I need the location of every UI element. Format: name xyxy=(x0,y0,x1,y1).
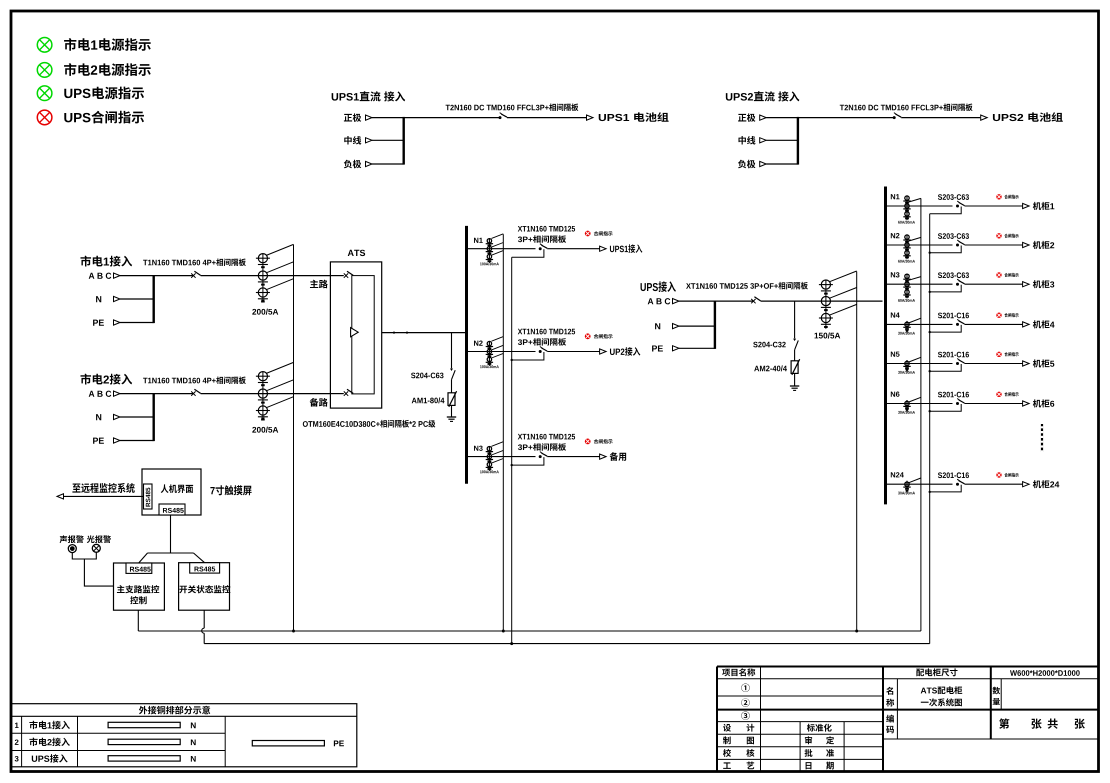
status tap wire N1 xyxy=(930,207,962,214)
breaker T1N160 TMD160 4P (市电2) xyxy=(191,391,195,395)
terminal ABC of 市电1 xyxy=(89,273,95,279)
wire N to bus (市电2) xyxy=(120,416,154,418)
surge arrester AM1-80/4 xyxy=(448,393,455,406)
cabinet distribution bus xyxy=(884,187,887,505)
wire UPS1 负极 to bus xyxy=(372,163,404,165)
output label 机柜5 xyxy=(1033,359,1041,367)
ground symbol xyxy=(447,416,456,418)
wire ABC to bus (市电2) xyxy=(120,393,154,395)
output arrow N1 xyxy=(600,246,607,251)
wire breaker to output N4 xyxy=(965,323,1023,325)
terminal 正极 of UPS1 xyxy=(344,114,352,122)
legend indicator lamp 2 xyxy=(37,63,52,78)
wire PE to bus (市电2) xyxy=(120,440,154,442)
closing indicator lamp N4 xyxy=(996,313,1001,318)
busbar table frame xyxy=(12,704,357,767)
closing indicator lamp N2 xyxy=(996,233,1001,238)
closing indicator lamp N6 xyxy=(996,392,1001,397)
branch N3 wire from bus xyxy=(886,283,953,285)
UPS2 DC bus xyxy=(797,117,799,165)
label 制图 xyxy=(723,736,731,744)
label 标准化 xyxy=(807,724,815,732)
label 至远程监控系统 xyxy=(72,483,80,492)
label 审定 xyxy=(805,736,812,744)
RCD sensor wires N3 xyxy=(492,442,504,447)
legend indicator lamp 4 xyxy=(37,110,52,125)
wire breaker to output N1 xyxy=(547,248,599,250)
status tap wire N2 xyxy=(930,246,962,253)
wire main controller to measurement bus xyxy=(137,610,139,631)
CT secondary wires (UPS) xyxy=(829,271,856,282)
市电1 input title xyxy=(80,256,91,267)
CT secondary wires (市电1) xyxy=(266,244,293,255)
label OTM160E4C10D380C xyxy=(303,421,308,427)
output arrow N1 xyxy=(1023,203,1030,208)
HMI to controllers wire xyxy=(148,515,171,553)
output label 机柜24 xyxy=(1033,480,1041,488)
wire breaker to ATS (市电2) xyxy=(201,393,331,395)
branch N3 label xyxy=(474,446,478,451)
wire UPS2 负极 to bus xyxy=(766,163,798,165)
RCD current sensor N24 xyxy=(906,481,908,490)
current transformers 150/5A (UPS) xyxy=(821,280,830,289)
label 150/5A xyxy=(815,333,819,339)
label UPS2 battery xyxy=(993,114,1000,121)
title block frame xyxy=(716,667,718,773)
branch N2 label xyxy=(474,341,478,346)
HMI RS485 port bottom xyxy=(159,504,185,515)
breaker S201-C16 N4 xyxy=(956,323,959,326)
N busbar row 1 xyxy=(108,722,180,727)
RCD current sensor N5 xyxy=(906,360,908,369)
ATS output wire xyxy=(382,332,467,334)
label 30A/30mA N6 xyxy=(898,411,900,414)
RCD sensor wire N24 xyxy=(909,478,921,483)
circled 1 xyxy=(741,684,749,692)
breaker label T1N160 (市电2) xyxy=(143,378,147,384)
switch status monitoring box xyxy=(179,563,230,611)
surge arrester AM2-40/4 xyxy=(791,361,798,374)
wire UPS2 positive to breaker xyxy=(798,117,893,119)
arrow to remote monitoring xyxy=(57,494,64,499)
breaker XT1N160 TMD125 N3 xyxy=(539,455,542,458)
N busbar row 2 xyxy=(108,739,180,744)
terminal N of 市电2 xyxy=(96,414,101,420)
output label 机柜4 xyxy=(1033,320,1041,328)
branch N5 wire from bus xyxy=(886,363,953,365)
closing indicator lamp N1 xyxy=(585,231,591,237)
ATS backup contact wire xyxy=(330,393,343,395)
status tap wire N24 xyxy=(930,485,962,492)
label 200/5A (市电2) xyxy=(252,427,256,433)
busbar table header 外接铜排部分示意 xyxy=(12,715,357,717)
title block horizontal lines xyxy=(717,678,1099,680)
RCD current sensor N1 xyxy=(906,196,908,218)
wire ATS output to SPD branch xyxy=(451,333,453,369)
UPS1 DC input title xyxy=(332,93,338,101)
label 工艺 xyxy=(723,762,731,768)
wire UPS SPD branch xyxy=(794,301,796,338)
label 编码 xyxy=(886,715,894,723)
wire breaker to output N6 xyxy=(965,403,1023,405)
ATS inner rect xyxy=(352,276,374,394)
wire breaker to ATS (市电1) xyxy=(201,275,331,277)
right status collector wire xyxy=(929,214,931,644)
UPS output distribution bus N xyxy=(465,226,468,484)
wire breaker to output N2 xyxy=(547,351,599,353)
branch N1 wire from bus xyxy=(886,205,953,207)
CT secondary wires (市电2) xyxy=(266,362,293,373)
RCD sensor wires N1 xyxy=(492,234,504,239)
output label 机柜1 xyxy=(1033,202,1041,210)
title block vertical lines xyxy=(760,667,762,773)
RS485 port of status monitor xyxy=(190,563,220,573)
N busbar row 3 xyxy=(108,756,180,761)
terminal PE of 市电2 xyxy=(93,438,98,444)
measurement collector line xyxy=(138,630,921,632)
terminal PE of UPS input xyxy=(652,345,657,351)
label 60A/30mA N2 xyxy=(898,260,900,263)
breaker T2N160 DC TMD160 (UPS2) xyxy=(893,116,896,119)
alarm wires xyxy=(72,552,96,559)
output arrow N2 xyxy=(1023,242,1030,247)
legend label 市电1电源指示 xyxy=(64,38,76,51)
市电1 input bus xyxy=(152,275,154,323)
breaker S203-C63 N2 xyxy=(956,244,959,247)
wire breaker to CT (UPS) xyxy=(761,300,883,302)
ATS selector triangle xyxy=(351,328,359,337)
status tap wire N4 xyxy=(930,325,962,332)
output label 备用 xyxy=(610,452,618,461)
breaker S201-C16 N6 xyxy=(956,402,959,405)
label ATS配电柜 一次系统图 xyxy=(921,688,927,694)
wire bus to breaker (市电2) xyxy=(154,393,194,395)
audible alarm 声报警 xyxy=(60,535,68,543)
output arrow N6 xyxy=(1023,401,1030,406)
breaker T2N160 DC TMD160 (UPS1) xyxy=(499,116,502,119)
terminal ABC of UPS input xyxy=(648,298,654,304)
terminal 负极 of UPS1 xyxy=(344,160,352,168)
wire breaker to output N2 xyxy=(965,244,1023,246)
UPS2 DC input title xyxy=(726,93,732,101)
市电2 input bus xyxy=(152,393,154,441)
row 1 市电1接入 xyxy=(15,723,19,728)
terminal 负极 of UPS2 xyxy=(738,160,746,168)
branch N1 label xyxy=(891,194,895,199)
status tap wire N2 xyxy=(512,352,544,360)
label 100A/30mA N3 xyxy=(480,470,482,473)
branch N1 wire from bus xyxy=(467,248,536,250)
wire switch to SPD (UPS) xyxy=(794,350,796,361)
branch N4 label xyxy=(891,313,895,318)
label 30A/30mA N4 xyxy=(898,332,900,335)
branch N3 wire from bus xyxy=(467,456,536,458)
status tap wire N3 xyxy=(512,457,544,465)
wire switch to SPD xyxy=(451,380,453,393)
output arrow N5 xyxy=(1023,361,1030,366)
wire breaker to output N24 xyxy=(965,483,1023,485)
main branch monitoring controller box xyxy=(114,563,165,610)
label 30A/30mA N5 xyxy=(898,371,900,374)
circled 3 xyxy=(741,711,749,719)
wire breaker to output N1 xyxy=(965,205,1023,207)
terminal 中线 of UPS2 xyxy=(738,136,745,144)
terminal 正极 of UPS2 xyxy=(738,114,746,122)
legend label 市电2电源指示 xyxy=(64,63,76,76)
wire UPS1 中线 to bus xyxy=(372,139,404,141)
right CT collector wire xyxy=(920,198,922,631)
legend indicator lamp 1 xyxy=(37,38,52,53)
label 7寸触摸屏 xyxy=(210,487,214,494)
circled 2 xyxy=(741,698,749,706)
closing indicator lamp N3 xyxy=(585,439,591,445)
RCD sensor wire N3 xyxy=(909,277,921,281)
branch N2 wire from bus xyxy=(886,244,953,246)
label 第 张 共 张 xyxy=(999,718,1009,728)
output arrow N4 xyxy=(1023,322,1030,327)
wire breaker to output N3 xyxy=(965,283,1023,285)
RCD sensor wire N5 xyxy=(909,357,921,362)
branch N3 label xyxy=(891,272,895,277)
wire breaker to UPS2 battery xyxy=(901,117,980,119)
UPS1 DC bus xyxy=(403,117,405,165)
disconnector S204-C63 xyxy=(450,369,453,372)
status collector line xyxy=(204,643,930,645)
terminal ABC of 市电2 xyxy=(89,391,95,397)
UPS input bus xyxy=(714,301,716,349)
closing indicator lamp N5 xyxy=(996,352,1001,357)
label 100A/30mA N1 xyxy=(480,263,482,266)
breaker S201-C16 N5 xyxy=(956,362,959,365)
wire breaker to output N3 xyxy=(547,456,599,458)
breaker label XT1N160 TMD125 3P+OF xyxy=(686,283,691,289)
CT secondary collector bus to monitoring xyxy=(293,245,295,632)
label 日期 xyxy=(806,762,812,769)
label main path 主路 xyxy=(310,280,318,288)
terminal PE of 市电1 xyxy=(93,320,98,326)
table columns xyxy=(21,716,23,767)
output arrow N2 xyxy=(600,349,607,354)
wire bus to breaker (市电1) xyxy=(154,275,194,277)
breaker XT1N160 TMD125 N1 xyxy=(539,247,542,250)
RCD current sensor N3 xyxy=(906,274,908,296)
status tap wire N1 xyxy=(512,249,544,257)
RCD sensor wire N1 xyxy=(909,198,921,202)
breaker S203-C63 N3 xyxy=(956,283,959,286)
branch N6 label xyxy=(891,392,895,397)
mid status collector wire xyxy=(511,257,513,643)
RCD sensor wire N2 xyxy=(909,237,921,241)
legend label UPS合闸指示 xyxy=(64,113,72,122)
breaker S203-C63 N1 xyxy=(956,205,959,208)
output arrow N3 xyxy=(600,454,607,459)
RCD sensor wire N6 xyxy=(909,397,921,402)
RCD current sensor N4 xyxy=(906,321,908,330)
wire UPS1 positive to breaker xyxy=(404,117,499,119)
UPS CT collector wire xyxy=(856,272,858,632)
ATS label xyxy=(348,250,354,256)
terminal N of UPS input xyxy=(655,323,660,329)
wire ABC to bus (市电1) xyxy=(120,275,154,277)
row 2 市电2接入 xyxy=(15,739,19,744)
disconnector S204-C32 xyxy=(793,339,796,342)
branch N24 label xyxy=(891,472,895,477)
RCD current sensor N2 xyxy=(488,341,490,363)
wire UPS2 正极 to bus xyxy=(766,117,798,119)
wire breaker to output N5 xyxy=(965,363,1023,365)
label 60A/30mA N1 xyxy=(898,221,900,224)
closing indicator lamp N3 xyxy=(996,272,1001,277)
label UPS1 battery xyxy=(599,114,606,121)
terminal 中线 of UPS1 xyxy=(344,136,351,144)
RCD sensor wire N4 xyxy=(909,318,921,323)
RCD current sensor N1 xyxy=(488,238,490,260)
branch N6 wire from bus xyxy=(886,403,953,405)
wire UPS1 正极 to bus xyxy=(372,117,404,119)
branch N5 label xyxy=(891,352,895,357)
branch N24 wire from bus xyxy=(886,483,953,485)
branch N2 label xyxy=(891,233,895,238)
branch N1 label xyxy=(474,238,478,243)
label 设计 xyxy=(723,724,731,732)
wire breaker to UPS1 battery xyxy=(507,117,586,119)
breaker XT1N160 (UPS) xyxy=(751,299,755,303)
RCD current sensor N3 xyxy=(488,446,490,468)
breaker label T1N160 (市电1) xyxy=(143,260,147,266)
legend label UPS电源指示 xyxy=(64,89,72,98)
label 数量 xyxy=(992,687,1000,695)
status tap wire N5 xyxy=(930,364,962,371)
label 30A/30mA N24 xyxy=(898,492,900,495)
PE busbar xyxy=(252,741,324,746)
RCD current sensor N6 xyxy=(906,400,908,409)
status tap wire N6 xyxy=(930,404,962,411)
wire UPS2 中线 to bus xyxy=(766,139,798,141)
label 批准 xyxy=(805,749,813,757)
wire PE to bus (市电1) xyxy=(120,322,154,324)
wire ABC to bus (UPS) xyxy=(679,300,715,302)
ATS box xyxy=(330,262,381,408)
breaker S201-C16 N24 xyxy=(956,483,959,486)
label 名称 xyxy=(886,687,893,695)
label 100A/30mA N2 xyxy=(480,365,482,368)
output arrow N24 xyxy=(1023,482,1030,487)
output label 机柜6 xyxy=(1033,399,1041,407)
HMI box 人机界面 xyxy=(142,469,201,515)
市电2 input title xyxy=(80,374,91,385)
closing indicator lamp N1 xyxy=(996,194,1001,199)
label 配电柜尺寸 xyxy=(916,669,924,677)
RS485 port of main controller xyxy=(126,563,152,573)
mid CT collector wire xyxy=(502,234,504,631)
label 200/5A (市电1) xyxy=(252,309,256,315)
breaker T1N160 TMD160 4P (市电1) xyxy=(191,273,195,277)
output label 机柜2 xyxy=(1033,241,1041,249)
label 校核 xyxy=(723,749,731,757)
label 项目名称 xyxy=(722,669,730,677)
RCD sensor wires N2 xyxy=(492,337,504,342)
status tap wire N3 xyxy=(930,285,962,292)
label W600*H2000*D1000 xyxy=(1010,670,1017,676)
HMI RS485 port left xyxy=(144,484,153,509)
closing indicator lamp N2 xyxy=(585,333,591,339)
branch N2 wire from bus xyxy=(467,351,536,353)
ATS main contact xyxy=(344,273,348,277)
output label UPS1接入 xyxy=(610,246,614,252)
wire bus to breaker (UPS) xyxy=(715,300,753,302)
ATS main contact wire xyxy=(330,275,343,277)
terminal N of 市电1 xyxy=(96,296,101,302)
ATS backup contact xyxy=(344,391,348,395)
legend indicator lamp 3 xyxy=(37,86,52,101)
wire SPD to ground xyxy=(451,405,453,417)
ellipsis more branches xyxy=(1041,424,1043,452)
output label UP2接入 xyxy=(610,349,615,355)
closing indicator lamp N24 xyxy=(996,472,1001,477)
wire SPD to ground (UPS) xyxy=(794,373,796,386)
label backup path 备路 xyxy=(310,398,319,407)
RCD current sensor N2 xyxy=(906,235,908,257)
visual alarm 光报警 xyxy=(87,535,95,543)
output arrow N3 xyxy=(1023,282,1030,287)
current transformers 200/5A (市电1) xyxy=(258,254,267,263)
row 3 UPS接入 xyxy=(15,756,19,762)
UPS input title xyxy=(641,283,646,291)
current transformers 200/5A (市电2) xyxy=(258,372,267,381)
output label 机柜3 xyxy=(1033,280,1041,288)
branch N4 wire from bus xyxy=(886,323,953,325)
ground symbol (UPS) xyxy=(790,385,799,387)
breaker XT1N160 TMD125 N2 xyxy=(539,350,542,353)
wire N to bus (市电1) xyxy=(120,298,154,300)
label 60A/30mA N3 xyxy=(898,299,900,302)
table row lines xyxy=(12,732,226,734)
wire status monitor to status bus with hop xyxy=(203,610,205,628)
